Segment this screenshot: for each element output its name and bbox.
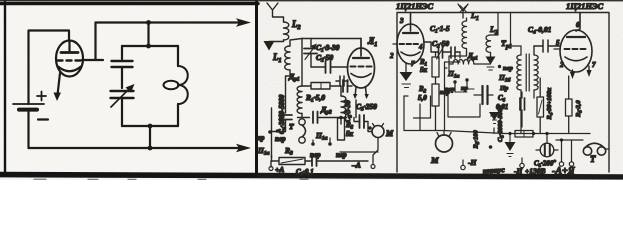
cathode lead (405, 63, 407, 72)
top rail wire with arrow (96, 21, 243, 23)
tank top wire (122, 45, 178, 47)
node bus C (545, 132, 548, 135)
resistor R4 (vertical) (537, 97, 544, 117)
node bus B (532, 132, 535, 135)
capacitor C6 (520, 98, 525, 110)
tube V2 filament leads with arrows (573, 66, 590, 74)
battery B1 (13, 104, 44, 110)
plate feed wire (511, 13, 522, 47)
trimmer capacitor C1 3-30 (310, 39, 312, 48)
capacitor C6 (312, 155, 317, 166)
grid leak capacitor mark (336, 76, 348, 86)
wire tank to bottom rail (149, 126, 151, 148)
bottom black scan bar (0, 172, 623, 180)
bottom bus (505, 133, 590, 135)
wire to -A (340, 138, 378, 164)
feedthrough capacitor C5 (540, 143, 554, 157)
ground arrow (earth) (264, 41, 275, 51)
terminal +A (269, 167, 273, 171)
scan grain overlay (0, 0, 258, 180)
battery minus label (38, 118, 48, 120)
switch contacts per/pr left (268, 130, 272, 134)
frame right edge (255, 2, 258, 174)
wire battery to bottom rail (27, 110, 29, 148)
battery plus label (37, 92, 46, 101)
terminal -N (520, 163, 524, 167)
terminal -N near motor (461, 165, 465, 169)
wire terminal drops (522, 140, 572, 164)
variable capacitor C (tuning) (111, 91, 134, 98)
resistor R5 (vertical) (566, 99, 573, 116)
tube pins (355, 87, 367, 97)
wire L1 top to rail (290, 39, 302, 47)
caption remnant dashes under bar (34, 178, 308, 180)
choke Dr1 (horizontal) (449, 60, 478, 65)
capacitor C5 (360, 115, 365, 128)
transformer Tr1 (517, 55, 521, 90)
wire row y117 (298, 100, 360, 122)
ground under L2 (486, 57, 496, 65)
node tank top junction (146, 44, 151, 49)
wire L2 to ground arrow (269, 40, 284, 42)
top scan edge line (0, 0, 623, 1)
terminal +YA (569, 162, 573, 166)
terminal -A (559, 162, 563, 166)
wire rail to tank (147, 23, 149, 47)
terminal -A (371, 165, 375, 169)
wires center (455, 89, 474, 92)
enclosure box (397, 13, 609, 173)
switch contacts (453, 80, 456, 83)
tube V1 (left) (397, 13, 424, 65)
coil L2 (486, 35, 491, 56)
bus link (444, 131, 505, 134)
wires left column (404, 96, 420, 131)
triode tube V1 (pictorial) (56, 41, 83, 77)
trimmer capacitor C1 (424, 42, 439, 52)
top rail wire (302, 38, 361, 40)
tube L1 (triode) (348, 39, 375, 89)
switch contacts pr/per bottom (311, 142, 315, 146)
coil L (pictorial loops) (177, 46, 179, 66)
node bus A (508, 132, 511, 135)
headphones T (583, 147, 591, 155)
motor M (436, 135, 453, 152)
right cap column wire (445, 52, 461, 131)
cathode arrow (54, 73, 62, 101)
resistor R3 (horizontal on bus) (515, 131, 533, 138)
coil L2 (antenna coupling) (284, 22, 289, 40)
node top rail junction (146, 20, 151, 25)
wire battery to plate (29, 31, 70, 105)
chassis ground (505, 142, 516, 151)
antenna W1 (267, 3, 284, 22)
bottom rail wire with arrow (29, 147, 243, 149)
capacitor C7 (big blocking) (483, 86, 488, 104)
earphone M (372, 126, 384, 138)
frame top edge (0, 2, 258, 5)
node R3 top (489, 145, 493, 149)
capacitor C4 (534, 40, 560, 52)
ground symbol under tube V1 (400, 72, 413, 81)
frame left edge (4, 2, 6, 174)
phones wiring (556, 140, 609, 149)
capacitor C2 (443, 51, 452, 53)
antenna W1 (458, 4, 468, 18)
coil L1 (tank) (285, 46, 290, 70)
resistor R1 (302, 85, 311, 87)
node bus D (560, 138, 563, 141)
grid capacitor C2 (311, 66, 348, 68)
wire tube to top rail (82, 23, 103, 61)
switch loop wiring (448, 95, 480, 117)
wire bottom left bus (414, 96, 431, 118)
tube V2 (right) (560, 13, 592, 73)
grid capacitor (fixed) (121, 46, 123, 59)
coil L2 wire from box top (491, 13, 499, 36)
switch per / P1b (498, 65, 501, 68)
resistor R2 (vertical) (338, 118, 345, 140)
node earphone lead (368, 126, 372, 130)
coil L1 (462, 18, 467, 52)
tank bottom wire (122, 125, 178, 127)
capacitor C3 (343, 80, 348, 92)
tube V2 grid lead (554, 48, 560, 50)
left branch wire (301, 39, 303, 87)
grid lead to pin 2 (393, 43, 397, 45)
wire L1 bottom (286, 70, 291, 113)
ground center (489, 112, 500, 121)
